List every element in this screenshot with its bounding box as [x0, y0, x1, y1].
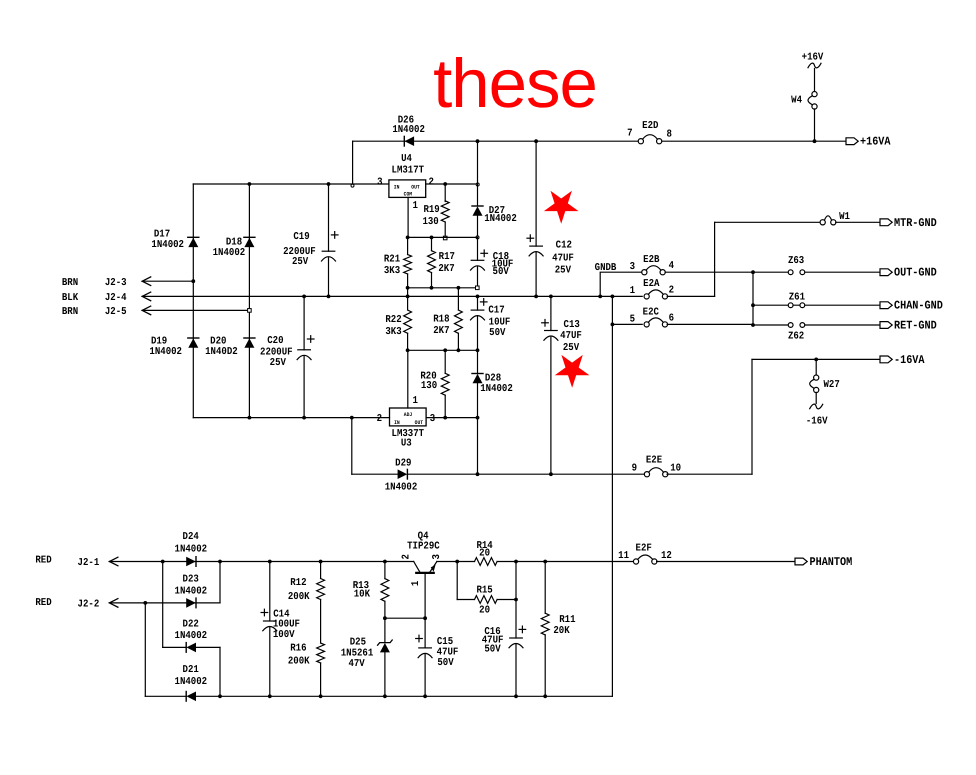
svg-text:BRN: BRN: [62, 277, 78, 289]
wire R20 top: [444, 350, 446, 373]
wire J2-1 to D22: [162, 562, 164, 648]
wire divider sense rail: [408, 287, 478, 289]
op-amp-style regulator U4 LM317T body: [389, 180, 426, 198]
junction base node / Q4 base: [423, 616, 427, 620]
junction adjust rail / R20: [443, 348, 447, 352]
svg-text:W4: W4: [791, 95, 802, 107]
svg-text:E2B: E2B: [643, 254, 660, 266]
svg-text:E2C: E2C: [643, 306, 659, 318]
capacitor C19: [322, 251, 336, 261]
svg-text:3K3: 3K3: [384, 265, 400, 277]
svg-text:OUT: OUT: [415, 420, 424, 426]
svg-text:R12: R12: [290, 577, 306, 589]
wire to W1: [715, 221, 821, 223]
wire R13 bottom: [384, 601, 386, 618]
junction R15 / C16 column: [514, 598, 518, 602]
svg-text:130: 130: [421, 380, 437, 392]
wire negative riser: [219, 647, 221, 696]
junction mid rail / E2C riser: [611, 295, 615, 299]
terminal flag +16VA: [846, 138, 858, 145]
resistor R15: [475, 596, 498, 604]
capacitor C15: [418, 648, 432, 658]
svg-text:1N4002: 1N4002: [175, 630, 208, 642]
wire D22 to negative riser: [196, 646, 220, 648]
junction sense rail / R17: [430, 286, 434, 290]
junction mid rail / GNDB drop: [598, 295, 602, 299]
link Z61: [788, 303, 804, 308]
svg-text:50V: 50V: [484, 643, 501, 655]
junction sense rail / R18: [457, 286, 461, 290]
capacitor C12 plus sign: [527, 235, 534, 242]
svg-text:1N4002: 1N4002: [385, 482, 418, 494]
svg-text:1N4002: 1N4002: [151, 239, 184, 251]
svg-text:+16V: +16V: [802, 52, 824, 64]
svg-text:J2-5: J2-5: [105, 306, 127, 318]
svg-text:50V: 50V: [493, 266, 510, 278]
wire to R15: [457, 599, 474, 601]
junction base node / R13: [383, 616, 387, 620]
wire R13 top: [384, 562, 386, 579]
wire to C18: [477, 237, 479, 260]
terminal flag MTR-GND: [880, 219, 892, 226]
svg-text:1N4002: 1N4002: [213, 247, 246, 259]
svg-text:IN: IN: [394, 185, 400, 191]
junction negative rail / D25: [383, 694, 387, 698]
wire R19 bottom: [444, 222, 446, 236]
wire W27 to -16V: [815, 392, 817, 403]
junction output node / R11: [543, 560, 547, 564]
diode D22 1N4002: [186, 643, 196, 653]
capacitor C20 plus sign: [307, 336, 314, 343]
svg-text:E2E: E2E: [646, 455, 662, 467]
junction top rail / D27 column: [476, 139, 480, 143]
svg-text:C19: C19: [293, 231, 309, 243]
wire rectifier rail to LM317 IN: [193, 183, 389, 185]
resistor R21: [404, 255, 412, 275]
node marker D27 column at adj rail: [476, 236, 479, 239]
svg-text:R15: R15: [476, 584, 492, 596]
wire top rail drop to LM317 input: [352, 141, 354, 184]
junction J2-1 / R12: [319, 560, 323, 564]
regulator U3 LM337T body: [390, 408, 427, 426]
svg-text:PHANTOM: PHANTOM: [810, 555, 853, 569]
svg-text:R19: R19: [423, 204, 439, 216]
wire -16VA rail: [752, 358, 880, 360]
diode D29 1N4002: [398, 469, 408, 479]
wire drop to D29: [351, 418, 353, 475]
svg-text:these: these: [433, 45, 597, 122]
svg-text:1N4002: 1N4002: [149, 346, 182, 358]
wire LM317 adjust rail: [408, 236, 478, 238]
svg-text:COM: COM: [404, 192, 412, 198]
junction LM337 IN rail / D29 drop: [350, 416, 354, 420]
wire mid rail to C17: [477, 296, 479, 310]
svg-text:C20: C20: [267, 335, 283, 347]
svg-text:Z63: Z63: [788, 255, 804, 267]
svg-text:3: 3: [430, 413, 435, 425]
junction -16 rail / C13: [549, 472, 553, 476]
svg-text:D23: D23: [183, 574, 199, 586]
junction ground tie / RET-GND: [751, 323, 755, 327]
wire to Z62: [753, 324, 788, 326]
svg-text:J2-2: J2-2: [78, 598, 100, 610]
terminal flag CHAN-GND: [880, 302, 892, 309]
arrow J2-4: [142, 292, 151, 301]
wire R16 bottom: [320, 663, 322, 696]
wire R21 top: [407, 237, 409, 254]
wire riser to -16VA rail: [751, 359, 753, 474]
wire to D22: [163, 646, 187, 648]
jumper W1: [820, 216, 836, 225]
svg-text:J2-4: J2-4: [105, 292, 127, 304]
wire top rail to D27: [477, 141, 479, 206]
junction top rail / C12 column: [534, 139, 538, 143]
wire LM337 OUT: [426, 417, 477, 419]
svg-text:1N4002: 1N4002: [480, 383, 513, 395]
wire GNDB mid rail: [142, 295, 642, 297]
diode D27 1N4002: [472, 206, 483, 216]
svg-text:D22: D22: [183, 618, 199, 630]
wire J2-3 stub: [142, 280, 193, 282]
svg-text:CHAN-GND: CHAN-GND: [894, 299, 943, 313]
junction -16 rail / D28 column: [476, 472, 480, 476]
junction J2-1 / D22 drop: [161, 560, 165, 564]
wire Z62 to RET-GND: [805, 324, 880, 326]
capacitor C13 plus sign: [542, 320, 549, 327]
wire to D29: [352, 473, 398, 475]
junction LM317 OUT / R19: [443, 182, 447, 186]
svg-text:W27: W27: [824, 379, 840, 391]
rail squiggle +16V: [808, 63, 821, 68]
wire J2-5 stub: [142, 309, 249, 311]
capacitor C17 plus sign: [480, 299, 487, 306]
junction bottom rail / D20: [248, 416, 252, 420]
resistor R11: [541, 613, 549, 635]
svg-text:BRN: BRN: [62, 306, 78, 318]
svg-text:U4: U4: [401, 153, 412, 165]
wire R14 to E2F: [497, 561, 633, 563]
zener diode D25 1N5261: [378, 640, 393, 652]
junction negative rail / D22 riser: [218, 694, 222, 698]
svg-text:J2-1: J2-1: [78, 557, 100, 569]
wire E2C to RET-GND rail: [667, 323, 753, 325]
wire left column D17/D19: [192, 184, 194, 418]
svg-text:ADJ: ADJ: [404, 412, 412, 418]
junction mid rail / C12: [534, 295, 538, 299]
resistor R16: [317, 643, 325, 663]
wire to W27: [815, 359, 817, 374]
link Z62: [788, 323, 804, 328]
wire J2-1 rail: [109, 561, 413, 563]
svg-text:2: 2: [429, 176, 434, 188]
svg-text:E2D: E2D: [642, 120, 658, 132]
svg-text:R22: R22: [385, 314, 401, 326]
node marker sense rail end: [476, 286, 480, 290]
terminal flag PHANTOM: [795, 558, 807, 565]
svg-text:1: 1: [413, 200, 418, 212]
diode D18 1N4002: [244, 237, 255, 247]
svg-text:C12: C12: [556, 240, 572, 252]
junction J2-2 / D21 drop: [143, 601, 147, 605]
wire C18 bottom: [477, 267, 479, 288]
svg-text:Z62: Z62: [788, 330, 804, 342]
wire OUT to R19: [444, 184, 446, 202]
jumper E2F: [633, 555, 657, 564]
svg-text:50V: 50V: [489, 327, 506, 339]
junction LM337 OUT / R20: [443, 416, 447, 420]
svg-text:MTR-GND: MTR-GND: [894, 216, 937, 230]
svg-text:1: 1: [413, 395, 418, 407]
wire +16V to W4: [814, 69, 816, 92]
svg-text:10: 10: [670, 462, 681, 474]
red star marker 1: [544, 191, 579, 224]
svg-text:R16: R16: [290, 643, 306, 655]
svg-text:D29: D29: [395, 458, 411, 470]
wire +16V top rail: [353, 140, 639, 142]
wire base node to C15: [424, 618, 426, 648]
node marker R19 bottom: [443, 236, 447, 240]
wire E2F to PHANTOM: [657, 561, 795, 563]
wire Q4 base lead: [424, 573, 426, 618]
wire D28 to LM337 OUT rail: [477, 383, 479, 417]
wire top rail to C19: [328, 184, 330, 251]
svg-text:TIP29C: TIP29C: [407, 540, 440, 552]
wire E2B to Z63: [665, 271, 788, 273]
svg-text:+16VA: +16VA: [860, 135, 891, 149]
wire R17 bottom: [431, 273, 433, 288]
junction J2-1 / R13: [383, 560, 387, 564]
junction sense rail / R21-R22: [406, 286, 410, 290]
svg-text:-16V: -16V: [806, 415, 828, 427]
wire R22 top: [407, 288, 409, 310]
svg-text:25V: 25V: [270, 357, 287, 369]
junction negative rail / C16: [514, 694, 518, 698]
wire to CHAN-GND: [753, 304, 880, 306]
junction J2-3 / D17 column: [191, 279, 195, 283]
svg-text:R17: R17: [439, 251, 455, 263]
arrow J2-2: [109, 599, 118, 608]
junction +16VA node: [813, 139, 817, 143]
terminal flag OUT-GND: [880, 269, 892, 276]
svg-text:2: 2: [377, 413, 382, 425]
junction ground tie / CHAN-GND: [751, 303, 755, 307]
junction J2-1 / D23 riser: [218, 560, 222, 564]
svg-text:C13: C13: [564, 319, 580, 331]
svg-text:4: 4: [669, 260, 674, 272]
junction adjust rail / C17-D28 column: [476, 348, 480, 352]
svg-text:Z61: Z61: [789, 292, 805, 304]
svg-text:20K: 20K: [553, 625, 570, 637]
wire C15 bottom: [424, 654, 426, 696]
junction ground tie / OUT-GND: [751, 270, 755, 274]
junction J2-1 / C14: [268, 560, 272, 564]
svg-text:2K7: 2K7: [438, 263, 454, 275]
wire to D28: [477, 350, 479, 373]
wire column D18/D20: [248, 184, 250, 418]
wire riser to W1: [714, 222, 716, 296]
svg-text:-16VA: -16VA: [894, 353, 925, 367]
capacitor C16 plus sign: [519, 626, 526, 633]
node marker LM317 OUT at D27 column: [476, 183, 479, 186]
svg-text:20: 20: [479, 604, 490, 616]
wire D23 output riser: [219, 562, 221, 603]
wire W4 to +16VA rail: [814, 109, 816, 141]
diode D26 1N4002: [404, 136, 414, 146]
svg-text:1N4002: 1N4002: [175, 585, 208, 597]
junction output node / R15-C16: [514, 560, 518, 564]
wire R15 to output node: [497, 599, 516, 601]
jumper W4: [808, 92, 817, 110]
terminal flag RET-GND: [880, 322, 892, 329]
junction emitter rail / R15 drop: [455, 560, 459, 564]
junction negative rail / R11: [543, 694, 547, 698]
wire LM337 adjust rail: [408, 349, 478, 351]
svg-text:9: 9: [632, 463, 637, 475]
wire LM317 COM down: [407, 197, 409, 237]
wire mid rail to C20: [303, 296, 305, 349]
svg-text:IN: IN: [394, 420, 400, 426]
diode D17 1N4002: [188, 237, 199, 247]
svg-text:U3: U3: [401, 437, 412, 449]
svg-text:1N4002: 1N4002: [175, 543, 208, 555]
jumper E2D: [638, 135, 662, 144]
svg-text:W1: W1: [839, 211, 850, 223]
wire D25 to negative rail: [384, 652, 386, 696]
junction adjust rail / R21: [406, 236, 410, 240]
resistor R12: [317, 579, 325, 600]
svg-text:1: 1: [410, 581, 422, 586]
svg-text:8: 8: [667, 129, 672, 141]
wire top rail to C12: [535, 141, 537, 246]
resistor R18: [455, 310, 463, 333]
capacitor C14 plus sign: [261, 609, 268, 616]
wire R11 bottom: [544, 635, 546, 696]
capacitor C17: [471, 310, 485, 320]
svg-text:2: 2: [669, 285, 674, 297]
wire C13 bottom to -16 rail: [550, 337, 552, 474]
capacitor C19 plus sign: [331, 232, 338, 239]
resistor R22: [404, 310, 412, 333]
svg-text:2K7: 2K7: [433, 325, 449, 337]
svg-text:3: 3: [630, 261, 635, 273]
svg-text:6: 6: [669, 313, 674, 325]
terminal flag -16VA: [880, 356, 892, 363]
svg-text:E2A: E2A: [643, 278, 660, 290]
wire LM317 OUT: [426, 183, 478, 185]
capacitor C18: [471, 260, 485, 270]
svg-text:47V: 47V: [348, 658, 365, 670]
wire adjust rail to LM337 ADJ: [407, 350, 409, 408]
junction negative rail / R16: [319, 694, 323, 698]
transistor Q4 TIP29C: [414, 562, 437, 573]
resistor R13: [381, 579, 389, 602]
link Z63: [788, 270, 804, 275]
junction GNDB riser / E2C: [611, 323, 615, 327]
wire R11 top: [544, 562, 546, 614]
svg-text:200K: 200K: [288, 591, 310, 603]
svg-text:7: 7: [627, 128, 632, 140]
diode D19 1N4002: [188, 338, 199, 348]
svg-text:11: 11: [618, 550, 629, 562]
diode D23 1N4002: [186, 598, 196, 608]
svg-text:1N4002: 1N4002: [484, 213, 517, 225]
resistor R19: [441, 201, 449, 222]
svg-text:5: 5: [630, 314, 635, 326]
wire J2-2 to D21: [144, 603, 146, 696]
wire R12-R16 link: [320, 600, 322, 644]
svg-text:C17: C17: [488, 304, 504, 316]
wire J2-2 to D23: [109, 602, 220, 604]
wire Z63 to OUT-GND: [805, 271, 880, 273]
svg-text:25V: 25V: [292, 256, 309, 268]
wire C17 bottom: [477, 316, 479, 350]
capacitor C14: [263, 621, 277, 631]
junction top rail / D18: [248, 182, 252, 186]
wire R20 bottom: [444, 395, 446, 417]
junction adjust rail / R17: [430, 236, 434, 240]
svg-text:47UF: 47UF: [560, 330, 582, 342]
wire -16 rail to E2E: [407, 473, 645, 475]
junction mid rail / C20: [302, 295, 306, 299]
capacitor C15 plus sign: [416, 635, 423, 642]
wire down to R15: [456, 562, 458, 600]
diode D21 1N4002: [186, 692, 196, 702]
wire D28 column to -16 rail: [477, 418, 479, 475]
wire E2D to +16VA flag: [662, 140, 847, 142]
svg-text:E2F: E2F: [636, 543, 652, 555]
capacitor C16: [509, 638, 523, 648]
junction LM337 OUT / D28 column: [476, 416, 480, 420]
junction mid rail / C19: [327, 295, 331, 299]
node marker J2-5 / D20 column: [248, 309, 252, 313]
node marker at LM317 input rail: [351, 184, 354, 187]
capacitor C20: [297, 350, 311, 360]
resistor R20: [441, 373, 449, 395]
svg-text:1N40D2: 1N40D2: [205, 346, 238, 358]
junction adjust rail / R18: [457, 348, 461, 352]
wire Q4 emitter to R14: [437, 561, 475, 563]
svg-text:3K3: 3K3: [385, 326, 401, 338]
junction mid rail / R21-R22: [406, 295, 410, 299]
arrow J2-1: [109, 557, 118, 566]
jumper W27: [810, 375, 819, 393]
red star marker 2: [555, 355, 590, 388]
svg-text:20: 20: [479, 548, 490, 560]
wire C19 bottom to mid rail: [328, 258, 330, 297]
svg-text:1N4002: 1N4002: [175, 676, 208, 688]
svg-text:100V: 100V: [273, 629, 295, 641]
diode D24 1N4002: [186, 557, 196, 567]
jumper E2C: [644, 318, 668, 327]
svg-text:OUT: OUT: [411, 185, 420, 191]
junction mid rail / C13: [549, 295, 553, 299]
wire GNDB riser (E2C/phantom return): [611, 296, 613, 696]
svg-text:1N4002: 1N4002: [392, 124, 425, 136]
svg-text:25V: 25V: [555, 265, 572, 277]
svg-text:BLK: BLK: [62, 292, 79, 304]
wire C16 bottom: [515, 645, 517, 697]
svg-text:RET-GND: RET-GND: [894, 319, 937, 333]
jumper E2E: [644, 468, 668, 477]
svg-text:RED: RED: [35, 555, 51, 567]
wire R22 bottom: [407, 333, 409, 350]
wire to E2C: [612, 323, 642, 325]
svg-text:50V: 50V: [437, 657, 454, 669]
svg-text:47UF: 47UF: [552, 253, 574, 265]
svg-text:R18: R18: [433, 313, 449, 325]
wire E2E to -16VA riser: [667, 473, 752, 475]
svg-text:J2-3: J2-3: [105, 277, 127, 289]
